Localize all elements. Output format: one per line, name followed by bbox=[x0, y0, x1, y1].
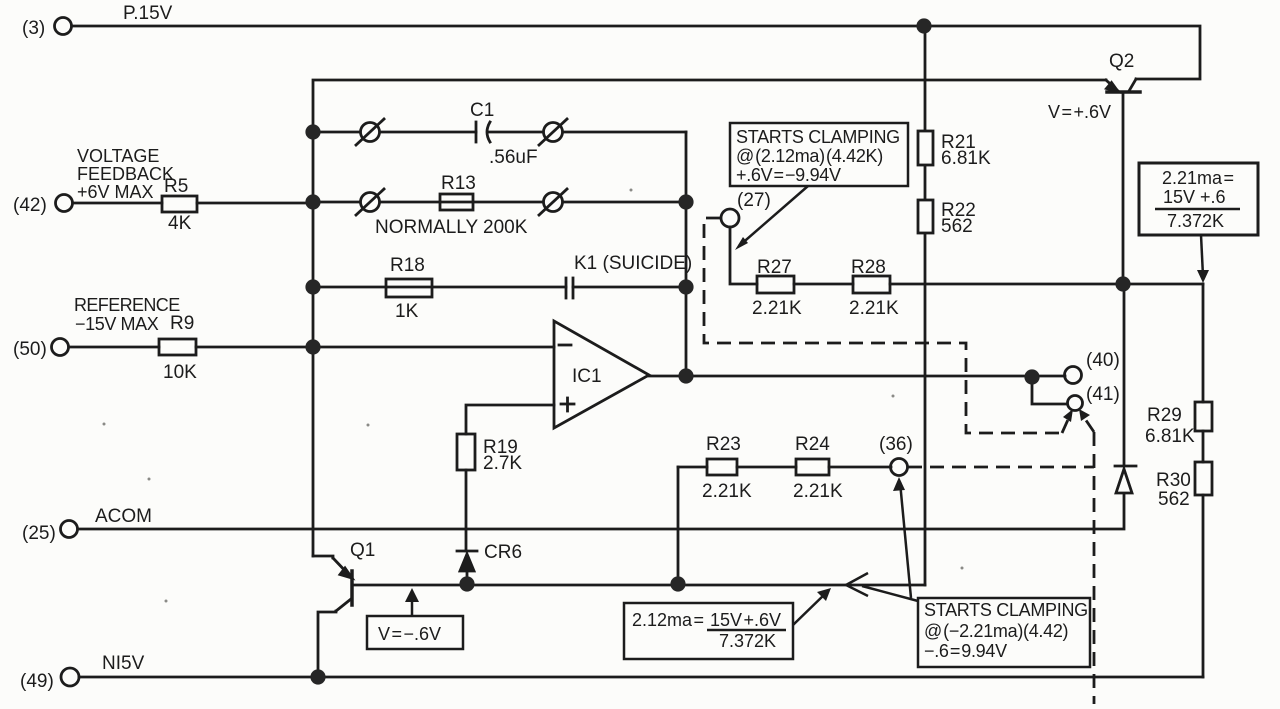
wire P.15V rail bbox=[72, 26, 1200, 79]
node CR6/base wire bbox=[459, 576, 474, 591]
node output/(41) branch bbox=[1024, 369, 1039, 384]
node IC1 output bbox=[678, 368, 693, 383]
transistor Q1 bbox=[313, 556, 352, 677]
terminal (3) bbox=[55, 18, 72, 35]
line from lower box to left arrowhead bbox=[862, 586, 918, 601]
node on P15V rail bbox=[916, 18, 931, 33]
svg-text:VOLTAGE: VOLTAGE bbox=[77, 146, 159, 166]
wire R9 to IC1 minus input bbox=[196, 346, 554, 349]
svg-text:C1: C1 bbox=[470, 100, 494, 121]
selected-value symbol on R13 row right bbox=[539, 189, 567, 215]
svg-text:.56uF: .56uF bbox=[489, 147, 538, 168]
svg-text:K1 (SUICIDE): K1 (SUICIDE) bbox=[574, 253, 692, 274]
svg-text:2.21K: 2.21K bbox=[849, 298, 899, 319]
wire R23 to R24 bbox=[737, 466, 796, 469]
svg-text:−15V MAX: −15V MAX bbox=[75, 314, 159, 334]
node summing/R13 bbox=[305, 194, 320, 209]
wire IC1 output row bbox=[649, 375, 1065, 378]
transistor Q2 bbox=[1106, 79, 1140, 284]
relay contact K1 bbox=[566, 278, 573, 298]
node summing/C1 bbox=[305, 124, 320, 139]
wire feedback vertical bbox=[685, 132, 688, 376]
svg-text:(50): (50) bbox=[13, 339, 47, 360]
fraction bar in 2.21ma box bbox=[1155, 208, 1240, 211]
dashed diagonal into (41) right bbox=[1081, 413, 1094, 432]
wire R27 to R28 bbox=[794, 283, 853, 286]
diode CR6 bbox=[457, 551, 477, 571]
wire CR6 to base wire bbox=[466, 571, 469, 585]
node feedback/R13 bbox=[678, 194, 693, 209]
terminal (36) bbox=[891, 459, 908, 476]
capacitor C1 bbox=[476, 122, 490, 142]
svg-text:Q2: Q2 bbox=[1109, 51, 1134, 72]
scan speck bbox=[892, 395, 895, 398]
svg-text:562: 562 bbox=[1158, 489, 1190, 510]
annotation box 2.12ma bbox=[624, 603, 793, 659]
annotation box V=+-.6V at Q1 bbox=[367, 616, 463, 649]
scan speck bbox=[148, 478, 151, 481]
svg-text:P.15V: P.15V bbox=[123, 3, 173, 24]
terminal (27) bbox=[721, 209, 739, 227]
svg-text:R18: R18 bbox=[390, 255, 425, 276]
svg-text:V = +.6V: V = +.6V bbox=[1048, 102, 1111, 122]
wire R18 row left bbox=[313, 286, 566, 289]
resistor R30 bbox=[1195, 462, 1212, 495]
node summing/reference bbox=[305, 339, 320, 354]
svg-text:CR6: CR6 bbox=[484, 542, 522, 563]
node Q1 emitter/N15V bbox=[310, 669, 325, 684]
svg-text:R9: R9 bbox=[170, 313, 194, 334]
svg-text:NI5V: NI5V bbox=[102, 653, 145, 674]
svg-text:15V +.6: 15V +.6 bbox=[1163, 187, 1226, 207]
svg-text:(40): (40) bbox=[1086, 350, 1120, 371]
arrow from 2.12ma box to base wire bbox=[793, 588, 831, 625]
svg-text:2.7K: 2.7K bbox=[483, 453, 522, 474]
svg-text:(49): (49) bbox=[20, 671, 54, 692]
terminal (49) bbox=[61, 668, 79, 686]
svg-text:1K: 1K bbox=[395, 301, 419, 322]
wire to terminal (41) bbox=[1032, 377, 1067, 404]
svg-text:R23: R23 bbox=[706, 434, 741, 455]
svg-text:+6V MAX: +6V MAX bbox=[77, 182, 154, 202]
op-amp minus sign bbox=[559, 344, 571, 347]
svg-text:R30: R30 bbox=[1156, 470, 1191, 491]
wire N15V bbox=[79, 676, 1203, 679]
svg-text:6.81K: 6.81K bbox=[1145, 426, 1195, 447]
svg-text:2.21K: 2.21K bbox=[793, 481, 843, 502]
wire right vertical to R29 bbox=[1202, 284, 1205, 402]
annotation box STARTS CLAMPING upper bbox=[730, 123, 908, 186]
wire C1 row right bbox=[489, 131, 686, 134]
wire IC1 plus input bbox=[466, 405, 554, 434]
arrow from V box to Q1 base wire bbox=[405, 588, 419, 616]
svg-text:STARTS CLAMPING: STARTS CLAMPING bbox=[736, 127, 900, 147]
wire C1 row left bbox=[313, 131, 476, 134]
wire Q1 base row bbox=[354, 584, 925, 587]
wire R22 bottom vertical bbox=[924, 26, 927, 585]
dashed clamp path from (27) bbox=[704, 218, 1062, 433]
scan speck bbox=[165, 600, 168, 603]
svg-text:@ (2.12ma) (4.42K): @ (2.12ma) (4.42K) bbox=[736, 146, 883, 166]
wire R23 branch vertical bbox=[677, 467, 680, 585]
node summing/R18 bbox=[305, 279, 320, 294]
svg-text:(3): (3) bbox=[22, 18, 45, 39]
svg-text:R24: R24 bbox=[795, 434, 830, 455]
resistor R23 bbox=[707, 459, 737, 475]
scan speck bbox=[103, 423, 106, 426]
node feedback/K1 bbox=[678, 279, 693, 294]
svg-text:562: 562 bbox=[941, 216, 973, 237]
wire summing node vertical bbox=[313, 80, 1106, 556]
svg-text:(36): (36) bbox=[879, 434, 913, 455]
wire R19 to CR6 bbox=[465, 470, 468, 551]
wire R5 to summing node bbox=[197, 202, 313, 205]
svg-text:−.6 = 9.94V: −.6 = 9.94V bbox=[924, 641, 1007, 661]
svg-text:2.12ma =: 2.12ma = bbox=[632, 610, 704, 630]
resistor R13 bbox=[440, 194, 473, 210]
node clamp junction bbox=[1115, 276, 1130, 291]
wire R23 row bbox=[678, 466, 707, 469]
svg-text:@ (−2.21ma)(4.42): @ (−2.21ma)(4.42) bbox=[924, 621, 1068, 641]
resistor R19 bbox=[457, 434, 475, 470]
wire clamp node to right vertical bbox=[1123, 283, 1203, 286]
selected-value symbol on C1 row right bbox=[539, 119, 567, 145]
wire (27) to R27 row bbox=[730, 227, 757, 284]
svg-text:FEEDBACK: FEEDBACK bbox=[77, 164, 174, 184]
wire R29 to R30 bbox=[1202, 431, 1205, 462]
arrow from upper box to (27) wire bbox=[735, 186, 808, 250]
scan speck bbox=[367, 424, 370, 427]
selected-value symbol on R13 row left bbox=[356, 189, 384, 215]
resistor R24 bbox=[796, 459, 829, 475]
resistor R27 bbox=[757, 276, 794, 293]
arrow from 2.21ma box to clamp wire bbox=[1197, 235, 1209, 283]
wire R18 row right bbox=[573, 286, 686, 289]
svg-text:+.6V = −9.94V: +.6V = −9.94V bbox=[736, 165, 841, 185]
resistor R5 bbox=[162, 196, 197, 212]
wire ACOM bbox=[78, 494, 1124, 529]
svg-text:Q1: Q1 bbox=[350, 540, 375, 561]
terminal (50) bbox=[52, 339, 69, 356]
resistor R18 bbox=[386, 279, 432, 297]
svg-text:(25): (25) bbox=[22, 523, 56, 544]
svg-text:(42): (42) bbox=[13, 195, 47, 216]
svg-text:STARTS CLAMPING: STARTS CLAMPING bbox=[924, 600, 1088, 620]
dashed clamp vertical right bbox=[1093, 432, 1096, 704]
svg-text:2.21K: 2.21K bbox=[752, 298, 802, 319]
svg-text:NORMALLY 200K: NORMALLY 200K bbox=[375, 217, 528, 238]
wire R24 to (36) bbox=[829, 466, 891, 469]
svg-text:(41): (41) bbox=[1086, 384, 1120, 405]
resistor R21 bbox=[918, 131, 933, 165]
svg-text:6.81K: 6.81K bbox=[941, 148, 991, 169]
annotation box STARTS CLAMPING lower bbox=[918, 598, 1090, 667]
terminal (42) bbox=[56, 195, 73, 212]
resistor R29 bbox=[1195, 402, 1212, 431]
svg-text:ACOM: ACOM bbox=[95, 506, 152, 527]
wire from (50) to R9 bbox=[69, 346, 159, 349]
svg-text:10K: 10K bbox=[163, 362, 197, 383]
svg-text:R27: R27 bbox=[757, 257, 792, 278]
dashed path from (36) bbox=[908, 466, 1094, 469]
scan speck bbox=[961, 567, 964, 570]
node R23 branch/base wire bbox=[670, 576, 685, 591]
svg-text:7.372K: 7.372K bbox=[719, 631, 776, 651]
annotation box 2.21ma bbox=[1139, 163, 1258, 235]
selected-value symbol on C1 row left bbox=[356, 119, 384, 145]
arrow from lower box to (36) bbox=[893, 477, 911, 598]
terminal (40) bbox=[1065, 367, 1082, 384]
svg-text:(27): (27) bbox=[737, 190, 771, 211]
svg-text:V = −.6V: V = −.6V bbox=[378, 624, 441, 644]
svg-text:IC1: IC1 bbox=[572, 366, 602, 387]
wire R28 to clamp node bbox=[890, 283, 1123, 286]
scan speck bbox=[630, 189, 633, 192]
wire from (42) to R5 bbox=[73, 202, 162, 205]
fraction bar in 2.12ma box bbox=[707, 629, 786, 632]
svg-text:2.21K: 2.21K bbox=[702, 481, 752, 502]
svg-text:R28: R28 bbox=[851, 257, 886, 278]
op-amp IC1 bbox=[554, 321, 649, 428]
terminal (41) bbox=[1068, 396, 1083, 411]
svg-text:R29: R29 bbox=[1147, 405, 1182, 426]
resistor R9 bbox=[159, 339, 196, 355]
svg-text:R13: R13 bbox=[441, 173, 476, 194]
svg-text:7.372K: 7.372K bbox=[1167, 211, 1224, 231]
svg-text:R5: R5 bbox=[164, 176, 188, 197]
dashed diagonal into (41) left bbox=[1062, 413, 1071, 433]
wire R13 row bbox=[313, 201, 686, 204]
op-amp plus sign bbox=[561, 398, 574, 411]
terminal (25) bbox=[61, 521, 78, 538]
resistor R28 bbox=[853, 276, 890, 293]
diode on clamp vertical bbox=[1115, 284, 1136, 493]
svg-text:REFERENCE: REFERENCE bbox=[74, 295, 180, 315]
svg-text:2.21ma =: 2.21ma = bbox=[1162, 168, 1234, 188]
resistor R22 bbox=[918, 200, 933, 233]
svg-text:15V +.6V: 15V +.6V bbox=[710, 610, 781, 630]
open arrowhead on base wire pointing left bbox=[846, 573, 868, 596]
wire R30 to N15V rail bbox=[1202, 495, 1205, 677]
svg-text:4K: 4K bbox=[168, 213, 192, 234]
